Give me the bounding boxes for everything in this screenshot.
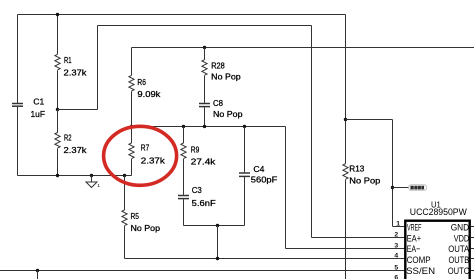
- svg-text:EA−: EA−: [407, 244, 421, 255]
- svg-text:R13: R13: [349, 163, 364, 173]
- wire upper box horizontal: [132, 47, 474, 49]
- wire pin1 stub: [393, 226, 407, 228]
- resistor R7: [129, 143, 134, 159]
- resistor R6: [129, 75, 134, 91]
- svg-text:9.09k: 9.09k: [137, 89, 161, 99]
- wire R9 bottom lead: [183, 159, 185, 195]
- svg-text:2.37k: 2.37k: [64, 67, 88, 77]
- wire EA- vertical: [285, 127, 287, 249]
- wire EA- pin3 horizontal: [286, 248, 407, 250]
- svg-text:R2: R2: [64, 133, 72, 143]
- svg-text:R28: R28: [211, 61, 225, 71]
- node R5 branch junction: [123, 174, 126, 177]
- wire R6 top lead: [131, 48, 133, 76]
- wire right pin stub row4: [471, 258, 474, 260]
- wire second rail horizontal: [98, 25, 312, 27]
- svg-text:SS/EN: SS/EN: [406, 266, 435, 277]
- node R1-R2 junction: [56, 108, 59, 111]
- wire right pin stub row1: [471, 226, 474, 228]
- svg-text:R1: R1: [64, 55, 72, 65]
- wire C4 top lead: [244, 127, 246, 173]
- node comp drop top junction: [216, 224, 219, 227]
- resistor R28: [202, 60, 207, 76]
- svg-text:6: 6: [394, 275, 398, 279]
- svg-text:2: 2: [394, 232, 398, 239]
- node R6-R7 bus junction: [130, 125, 133, 128]
- node comp drop bottom junction: [216, 257, 219, 260]
- svg-text:C3: C3: [192, 185, 202, 195]
- svg-text:27.4k: 27.4k: [191, 157, 216, 167]
- wire right pin stub row5: [471, 270, 474, 272]
- wire R2 bottom lead: [57, 148, 59, 175]
- svg-text:5: 5: [394, 265, 398, 272]
- svg-text:OUTB: OUTB: [449, 255, 470, 266]
- wire R7 bottom lead: [131, 159, 133, 176]
- op-amp U1 chip body: [405, 221, 469, 279]
- node VREF branch junction: [344, 118, 347, 121]
- capacitor C4: [239, 173, 250, 176]
- wire left rail upper vertical: [17, 15, 19, 103]
- wire R1 bottom lead: [57, 70, 59, 109]
- svg-text:C4: C4: [253, 164, 264, 174]
- wire right pin stub row3: [471, 248, 474, 250]
- net flag VREF: [409, 185, 427, 190]
- node SSEN branch junction: [36, 269, 39, 272]
- wire COMP pin4 horizontal: [125, 258, 407, 260]
- svg-text:5.6nF: 5.6nF: [192, 198, 216, 208]
- wire R5 top lead: [124, 176, 126, 211]
- svg-text:No Pop: No Pop: [213, 109, 243, 119]
- svg-text:560pF: 560pF: [251, 175, 278, 185]
- svg-text:1: 1: [97, 183, 100, 189]
- svg-text:No Pop: No Pop: [211, 71, 241, 81]
- svg-text:1: 1: [396, 221, 400, 228]
- svg-text:R9: R9: [191, 145, 200, 155]
- wire R28 bottom lead: [204, 76, 206, 103]
- wire comp drop vertical: [217, 226, 219, 259]
- wire feedback mid horizontal: [58, 109, 98, 111]
- wire R9 top lead: [183, 127, 185, 144]
- svg-text:C1: C1: [33, 96, 44, 106]
- svg-text:EA+: EA+: [407, 233, 422, 244]
- resistor R2: [55, 133, 60, 149]
- svg-text:1uF: 1uF: [31, 109, 46, 119]
- node R2 bottom junction: [56, 174, 59, 177]
- capacitor C3: [178, 196, 189, 199]
- svg-text:C8: C8: [213, 98, 223, 108]
- wire C3C4 bottom bus: [184, 225, 245, 227]
- wire R2 top lead: [57, 110, 59, 133]
- resistor R5: [122, 210, 127, 226]
- resistor R1: [55, 54, 60, 70]
- svg-text:2.37k: 2.37k: [64, 145, 88, 155]
- svg-text:2.37k: 2.37k: [141, 156, 166, 166]
- svg-text:3: 3: [394, 243, 398, 250]
- svg-text:No Pop: No Pop: [131, 223, 161, 233]
- wire top rail horizontal: [18, 14, 346, 16]
- svg-text:OUTC: OUTC: [448, 266, 470, 277]
- wire R28 top lead: [204, 48, 206, 60]
- wire VREF vertical: [392, 120, 394, 227]
- svg-text:R6: R6: [137, 77, 146, 87]
- wire C4 bottom lead: [244, 177, 246, 226]
- svg-text:VDD: VDD: [454, 233, 470, 244]
- svg-text:R5: R5: [131, 211, 140, 221]
- wire feedback vertical: [97, 26, 99, 110]
- svg-text:R7: R7: [141, 143, 150, 153]
- wire R1 top lead: [57, 15, 59, 55]
- capacitor C8: [199, 104, 210, 107]
- ground symbol 1: [86, 176, 100, 189]
- wire VREF branch horizontal: [346, 119, 393, 121]
- svg-text:UCC28950PW: UCC28950PW: [410, 207, 468, 217]
- wire long vertical lower: [345, 180, 347, 279]
- wire error bus horizontal: [132, 126, 286, 128]
- node R28 top junction: [203, 46, 206, 49]
- wire R5 bottom lead: [124, 226, 126, 259]
- node C8 bottom junction: [203, 125, 206, 128]
- node R9 top junction: [182, 125, 185, 128]
- wire VREF flag tap: [393, 187, 409, 189]
- wire C8 bottom lead: [204, 107, 206, 126]
- wire long vertical upper: [345, 15, 347, 164]
- svg-text:GND: GND: [451, 223, 470, 234]
- wire SSEN pin5 horizontal: [0, 270, 406, 272]
- wire left rail lower vertical: [17, 107, 19, 176]
- wire R6 bottom lead: [131, 91, 133, 143]
- resistor R9: [181, 143, 186, 159]
- node C4 top junction: [243, 125, 246, 128]
- resistor R13: [343, 164, 348, 180]
- wire right pin stub row2: [471, 237, 474, 239]
- svg-text:OUTA: OUTA: [448, 244, 470, 255]
- wire ground bus horizontal: [18, 175, 132, 177]
- wire SSEN branch stub down: [37, 271, 39, 279]
- wire EA+ vertical: [311, 26, 313, 238]
- node R1 top junction: [56, 13, 59, 16]
- svg-text:COMP: COMP: [407, 255, 431, 266]
- annotation red circle around R7: [104, 126, 177, 185]
- svg-text:4: 4: [394, 253, 398, 260]
- wire C3 bottom lead: [183, 199, 185, 225]
- node ground junction: [90, 174, 93, 177]
- wire EA+ pin2 horizontal: [312, 237, 407, 239]
- node VREF flag junction: [391, 186, 394, 189]
- svg-text:No Pop: No Pop: [349, 176, 380, 186]
- svg-text:VREF: VREF: [407, 223, 422, 234]
- capacitor C1: [12, 104, 23, 107]
